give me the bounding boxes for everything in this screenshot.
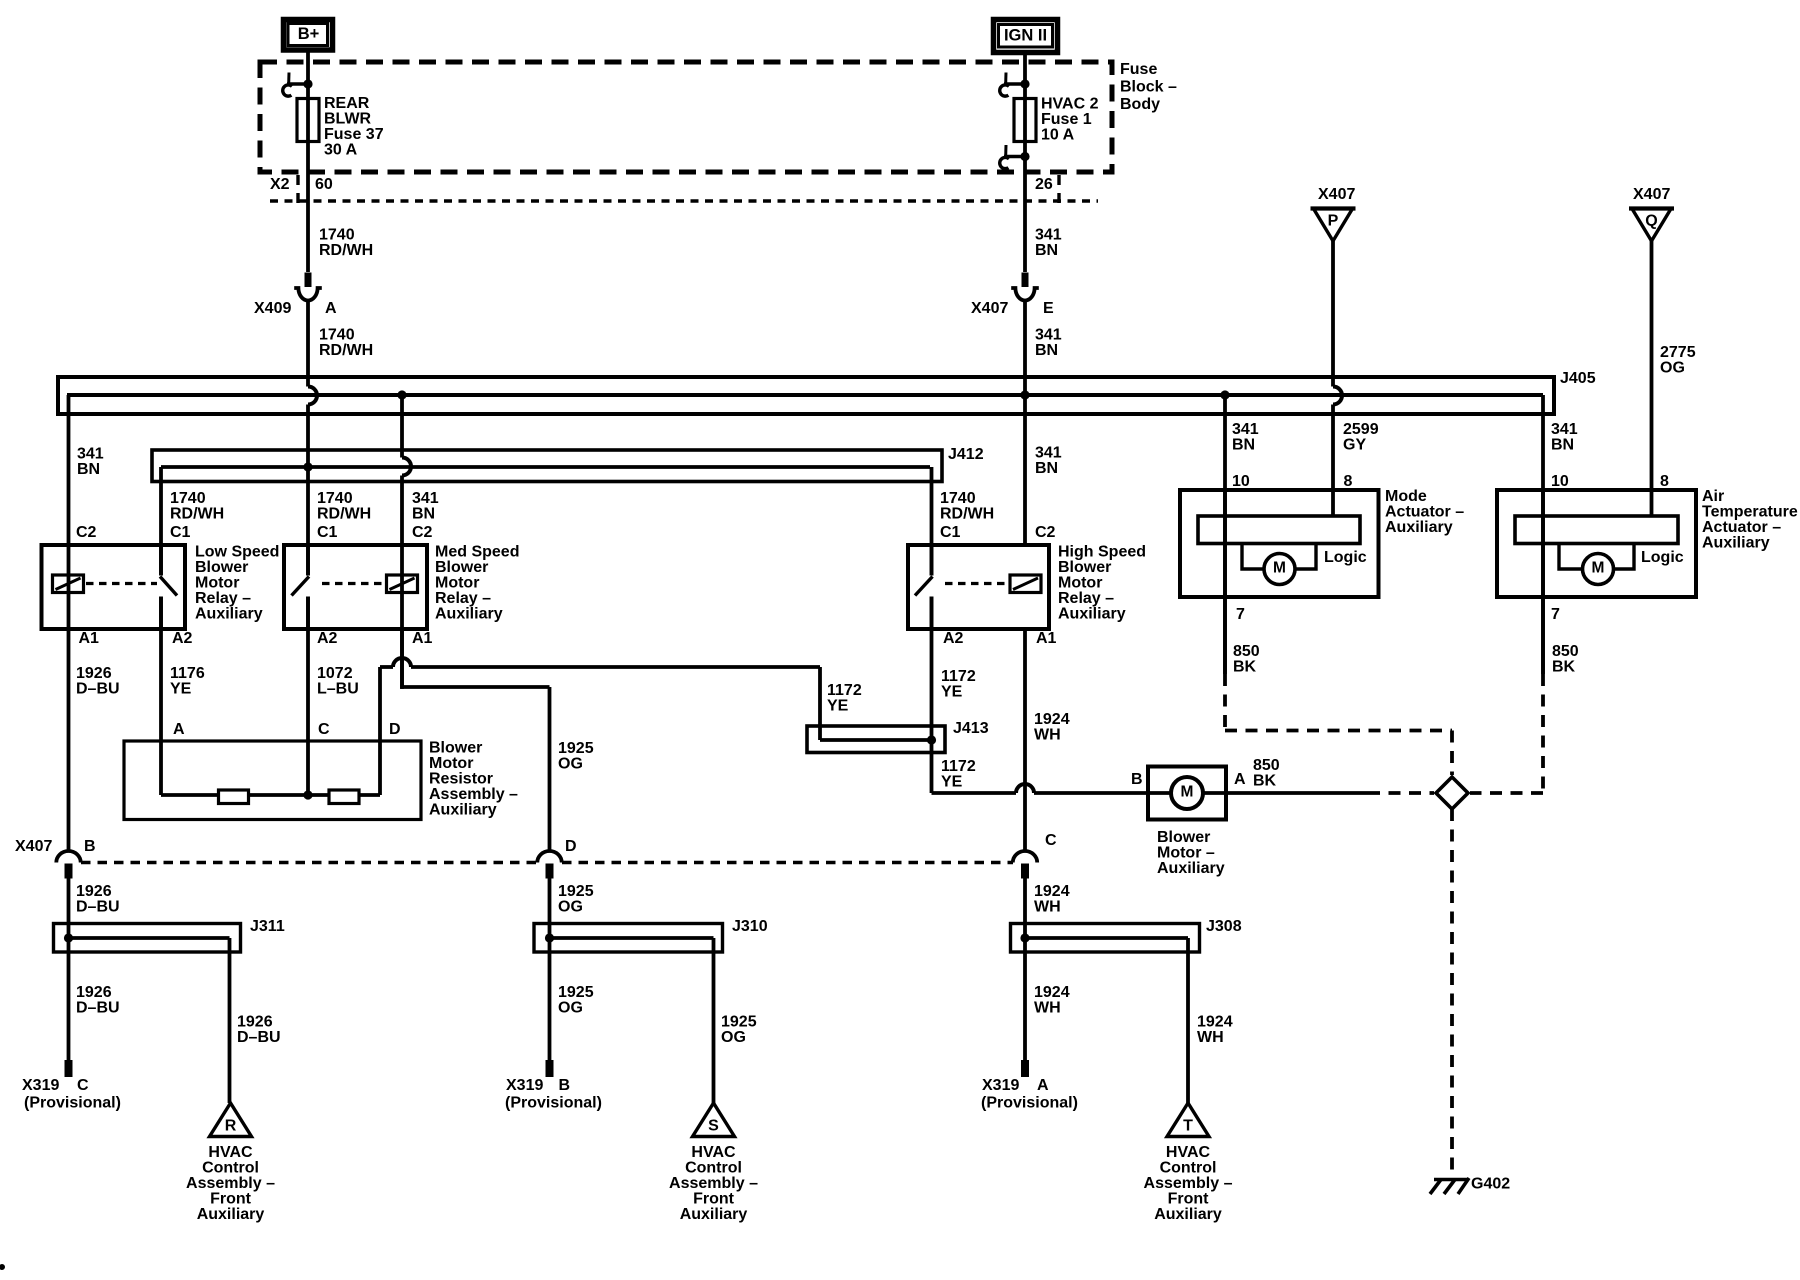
relay K2 Med Speed Blower Motor Relay - Auxiliary box [284, 545, 427, 629]
svg-text:341: 341 [1232, 421, 1259, 438]
svg-text:D–BU: D–BU [237, 1029, 281, 1046]
wire med relay A1 to 1925 OG drop [400, 629, 549, 852]
svg-text:Control: Control [1160, 1160, 1217, 1177]
svg-text:Control: Control [202, 1160, 259, 1177]
svg-text:D–BU: D–BU [76, 681, 120, 698]
splice bus J413 outline [807, 726, 945, 753]
svg-text:1072: 1072 [317, 665, 353, 682]
svg-text:X407: X407 [1633, 186, 1670, 203]
relay K1 coil-contact dashed link [86, 582, 157, 585]
svg-text:A: A [1234, 771, 1246, 788]
svg-text:1176: 1176 [170, 665, 205, 682]
svg-text:BN: BN [1035, 460, 1058, 477]
svg-text:High Speed: High Speed [1058, 544, 1146, 561]
label 341 BN C2 high relay [1035, 445, 1062, 542]
mode actuator motor link wires [1242, 544, 1316, 570]
label 1926 D-BU mid [76, 883, 120, 916]
splice bus J310 conductor [550, 936, 714, 940]
svg-text:X2: X2 [270, 176, 290, 193]
wire 1740 RD/WH J412 left end to low relay C1 [159, 467, 163, 576]
label Med Speed Blower Motor Relay - Auxiliary [435, 544, 519, 623]
terminal X319 pin C [65, 1060, 73, 1077]
svg-text:G402: G402 [1471, 1176, 1510, 1193]
svg-text:10 A: 10 A [1041, 127, 1075, 144]
label REAR BLWR Fuse 37 30 A [324, 95, 384, 159]
junction dot J311 [64, 933, 73, 942]
label X319 C (Provisional) [22, 1077, 121, 1112]
svg-text:C2: C2 [1035, 524, 1056, 541]
wire 2599 GY from X407-P to bus J405 [1331, 240, 1335, 387]
label A1 A2 low relay [79, 630, 193, 647]
svg-text:1926: 1926 [237, 1014, 273, 1031]
label 850 BK blower motor [1253, 757, 1280, 790]
label wire 341 BN left branch [77, 446, 104, 479]
junction dot J308 [1020, 933, 1029, 942]
svg-text:BN: BN [412, 506, 435, 523]
svg-text:X407: X407 [971, 300, 1008, 317]
wire 1172 YE resistor D up and across to J413 [380, 658, 820, 795]
splice bus J413 conductor [820, 738, 932, 742]
svg-text:RD/WH: RD/WH [319, 242, 373, 259]
svg-text:A1: A1 [1036, 630, 1057, 647]
svg-text:C1: C1 [170, 524, 191, 541]
svg-text:1925: 1925 [558, 984, 594, 1001]
svg-text:Relay –: Relay – [195, 590, 251, 607]
label X319 B (Provisional) [505, 1077, 602, 1112]
label wire 341 BN lower [1035, 327, 1062, 360]
svg-text:J308: J308 [1206, 918, 1242, 935]
relay K1 coil [53, 575, 84, 593]
in-line connector X407 pin C [1013, 851, 1037, 879]
label HVAC Control Assembly - Front Auxiliary (S) [669, 1144, 758, 1223]
label 1740 RD/WH C1 low relay [170, 490, 224, 541]
svg-text:10: 10 [1232, 473, 1250, 490]
wire 1924 WH X407-C to J308 and X319-A [1023, 878, 1027, 1060]
svg-text:C1: C1 [317, 524, 338, 541]
svg-text:OG: OG [558, 899, 583, 916]
svg-text:Block –: Block – [1120, 79, 1177, 96]
svg-text:Actuator –: Actuator – [1385, 504, 1464, 521]
svg-text:BN: BN [1035, 342, 1058, 359]
label wire 341 BN upper [1035, 227, 1062, 260]
svg-text:WH: WH [1034, 727, 1061, 744]
svg-text:YE: YE [941, 774, 963, 791]
svg-text:RD/WH: RD/WH [317, 506, 371, 523]
svg-text:1172: 1172 [941, 758, 976, 775]
jump hook 1740 RD/WH over J405 [308, 387, 317, 405]
label 1924 WH mid [1034, 883, 1070, 916]
svg-text:A2: A2 [317, 630, 338, 647]
label A2 A1 high relay [943, 630, 1057, 647]
resistor internal wire [161, 793, 380, 797]
svg-text:X319: X319 [982, 1077, 1019, 1094]
svg-text:Auxiliary: Auxiliary [1154, 1206, 1222, 1223]
svg-text:Logic: Logic [1641, 549, 1684, 566]
svg-text:A1: A1 [79, 630, 100, 647]
svg-text:X407: X407 [1318, 186, 1355, 203]
wire 341 BN from X407-E to bus J405 [1023, 301, 1027, 546]
wire 850 BK mode actuator dashed to diamond [1225, 674, 1452, 775]
svg-text:WH: WH [1034, 1000, 1061, 1017]
svg-text:Resistor: Resistor [429, 771, 493, 788]
svg-text:Temperature: Temperature [1702, 504, 1798, 521]
svg-text:A: A [173, 721, 185, 738]
svg-text:J311: J311 [250, 918, 285, 935]
svg-text:Fuse 1: Fuse 1 [1041, 111, 1092, 128]
svg-text:1926: 1926 [76, 984, 112, 1001]
svg-text:OG: OG [558, 1000, 583, 1017]
svg-text:Control: Control [685, 1160, 742, 1177]
splice bus J412 conductor [161, 465, 930, 469]
jump hook 2599 GY over J405 [1333, 387, 1342, 405]
svg-text:D: D [565, 838, 577, 855]
terminal X319 pin B [546, 1060, 554, 1077]
label 1172 YE above J413 [941, 668, 976, 701]
svg-text:Front: Front [210, 1191, 252, 1208]
blower motor internal wire [1148, 791, 1226, 795]
svg-text:341: 341 [77, 446, 104, 463]
svg-text:HVAC: HVAC [1166, 1144, 1211, 1161]
svg-text:341: 341 [1035, 445, 1062, 462]
svg-text:Auxiliary: Auxiliary [195, 606, 263, 623]
svg-text:Blower: Blower [435, 559, 488, 576]
label 1926 D-BU lower [76, 984, 120, 1017]
svg-text:L–BU: L–BU [317, 681, 359, 698]
resistor element R1 [219, 790, 249, 804]
svg-text:(Provisional): (Provisional) [505, 1095, 602, 1112]
label 2599 GY [1343, 421, 1379, 454]
wire 341 BN J405 to mode actuator pin 10 [1223, 395, 1227, 674]
svg-text:YE: YE [941, 684, 963, 701]
label 341 BN mode actuator feed [1232, 421, 1259, 454]
svg-text:C2: C2 [412, 524, 433, 541]
svg-text:7: 7 [1551, 606, 1560, 623]
label 850 BK mode actuator [1233, 643, 1260, 676]
splice bus J308 outline [1011, 924, 1200, 953]
svg-text:1740: 1740 [319, 327, 355, 344]
connector triangle R [210, 1103, 252, 1137]
svg-text:1925: 1925 [558, 740, 594, 757]
label 1740 RD/WH C1 high relay [940, 490, 994, 541]
svg-text:Motor –: Motor – [1157, 845, 1215, 862]
svg-text:Low Speed: Low Speed [195, 544, 279, 561]
svg-text:Front: Front [1168, 1191, 1210, 1208]
svg-text:RD/WH: RD/WH [170, 506, 224, 523]
in-line connector X407 pin B [56, 851, 80, 878]
wire 1924 WH high relay A1 to X407-C [1023, 629, 1027, 852]
wire B+ feed through fuse 37 (x=308) [306, 52, 310, 272]
svg-text:A: A [325, 300, 337, 317]
junction dot J413 [927, 735, 936, 744]
svg-text:Logic: Logic [1324, 549, 1367, 566]
svg-text:341: 341 [1035, 327, 1062, 344]
svg-text:WH: WH [1034, 899, 1061, 916]
fuse clip upper HVAC 2 fuse [1000, 73, 1030, 97]
label HVAC Control Assembly - Front Auxiliary (R) [186, 1144, 275, 1223]
svg-text:Auxiliary: Auxiliary [197, 1206, 265, 1223]
fuse clip upper REAR BLWR fuse [283, 73, 313, 97]
svg-text:341: 341 [412, 490, 439, 507]
svg-text:X407: X407 [15, 838, 52, 855]
svg-text:Motor: Motor [429, 755, 473, 772]
wire air temp actuator pin 10 through logic to pin 7 [1541, 490, 1545, 674]
wire 1072 L-BU med relay A2 to resistor C [306, 597, 310, 796]
label 1924 WH branch [1197, 1014, 1233, 1047]
svg-text:Blower: Blower [195, 559, 248, 576]
svg-text:T: T [1183, 1118, 1193, 1135]
svg-text:RD/WH: RD/WH [940, 506, 994, 523]
resistor pin labels A C D [173, 721, 401, 738]
connector triangle X407 P [1311, 209, 1356, 242]
junction dot J412 1740 RD/WH [303, 462, 312, 471]
fuse HVAC 2 Fuse 1 10 A [1014, 99, 1036, 142]
fuse block lower dashed boundary [270, 199, 1098, 202]
svg-text:1926: 1926 [76, 665, 112, 682]
svg-text:B: B [559, 1077, 571, 1094]
wire 1926 D-BU J311 branch to HVAC control R [228, 938, 232, 1103]
svg-text:HVAC: HVAC [208, 1144, 253, 1161]
wire mode actuator pin 10 through logic to pin 7 [1223, 490, 1227, 674]
wire 1926 D-BU X407-B to J311 and X319-C [67, 878, 71, 1060]
svg-text:J413: J413 [953, 720, 989, 737]
svg-text:Auxiliary: Auxiliary [429, 802, 497, 819]
splice bus J405 conductor [67, 393, 1543, 397]
power feed node B+ [284, 20, 333, 51]
connector X2 row labels [270, 176, 1053, 193]
fuse clip lower HVAC 2 fuse [1000, 145, 1030, 169]
svg-text:1925: 1925 [721, 1014, 757, 1031]
svg-text:IGN II: IGN II [1004, 27, 1047, 45]
label wire 2775 OG [1660, 344, 1696, 377]
svg-text:Auxiliary: Auxiliary [680, 1206, 748, 1223]
svg-text:C2: C2 [76, 524, 97, 541]
label Low Speed Blower Motor Relay - Auxiliary [195, 544, 279, 623]
svg-text:Assembly –: Assembly – [429, 786, 518, 803]
blower motor resistor assembly box [124, 741, 421, 820]
label 850 BK air temp actuator [1552, 643, 1579, 676]
svg-text:(Provisional): (Provisional) [981, 1095, 1078, 1112]
relay K1 Low Speed Blower Motor Relay - Auxiliary box [42, 545, 186, 629]
label HVAC 2 Fuse 1 10 A [1041, 96, 1099, 144]
junction dot resistor C tap [303, 790, 312, 799]
splice bus J412 outline [152, 450, 942, 482]
svg-text:8: 8 [1660, 473, 1669, 490]
blower motor M symbol [1171, 777, 1203, 809]
junction dot J405 to med relay C2 [397, 390, 406, 399]
svg-text:REAR: REAR [324, 95, 370, 112]
label wire 1740 RD/WH upper [319, 227, 373, 260]
svg-text:2599: 2599 [1343, 421, 1379, 438]
relay K3 High Speed Blower Motor Relay - Auxiliary box [908, 545, 1049, 629]
svg-text:Fuse 37: Fuse 37 [324, 126, 384, 143]
wire IGN II feed through HVAC 2 fuse (x=1025) [1023, 52, 1027, 272]
junction dot J310 [545, 933, 554, 942]
svg-text:Fuse: Fuse [1120, 61, 1157, 78]
svg-text:1740: 1740 [170, 490, 206, 507]
junction dot J405 to mode actuator [1220, 390, 1229, 399]
svg-text:341: 341 [1035, 227, 1062, 244]
svg-text:Auxiliary: Auxiliary [1385, 519, 1453, 536]
wire 341 BN J405 left end down to low relay C2 [67, 395, 71, 852]
svg-text:YE: YE [827, 698, 849, 715]
svg-text:RD/WH: RD/WH [319, 342, 373, 359]
in-line connector X407 pin D [537, 851, 561, 879]
svg-text:D–BU: D–BU [76, 1000, 120, 1017]
wire 850 BK dashed to splice diamond [1368, 791, 1434, 795]
relay K2 coil [387, 575, 418, 593]
label 1925 OG at drop [558, 740, 594, 773]
wire 2599 GY below J405 to mode actuator pin 8 [1331, 405, 1335, 517]
svg-text:7: 7 [1236, 606, 1245, 623]
label 1924 WH lower [1034, 984, 1070, 1017]
svg-text:1924: 1924 [1197, 1014, 1233, 1031]
label 1072 L-BU [317, 665, 359, 698]
connector triangle X407 Q [1629, 209, 1674, 242]
label Blower Motor - Auxiliary [1157, 829, 1225, 877]
wire 1925 OG X407-D to J310 and X319-B [548, 878, 552, 1060]
svg-text:850: 850 [1552, 643, 1579, 660]
splice bus J311 outline [54, 924, 241, 953]
svg-text:Body: Body [1120, 96, 1160, 113]
svg-text:1924: 1924 [1034, 984, 1070, 1001]
svg-text:Motor: Motor [195, 575, 239, 592]
svg-text:Front: Front [693, 1191, 735, 1208]
svg-text:OG: OG [1660, 360, 1685, 377]
wire 850 BK blower motor A solid segment [1226, 791, 1368, 795]
svg-text:A1: A1 [412, 630, 433, 647]
svg-text:1172: 1172 [941, 668, 976, 685]
stray mark bottom left [0, 1264, 5, 1270]
svg-text:R: R [225, 1118, 237, 1135]
svg-text:Blower: Blower [429, 740, 482, 757]
wire 1172 YE to blower motor B [932, 784, 1149, 793]
svg-text:M: M [1592, 559, 1605, 576]
relay K2 contact blade [292, 545, 310, 629]
svg-text:BN: BN [77, 461, 100, 478]
splice bus J311 conductor [69, 936, 230, 940]
svg-text:S: S [708, 1118, 719, 1135]
svg-text:1925: 1925 [558, 883, 594, 900]
svg-text:1740: 1740 [940, 490, 976, 507]
label 1925 OG lower [558, 984, 594, 1017]
svg-text:BN: BN [1551, 437, 1574, 454]
svg-text:A2: A2 [172, 630, 193, 647]
svg-text:Relay –: Relay – [435, 590, 491, 607]
label Air Temperature Actuator - Auxiliary [1702, 488, 1798, 552]
label 341 BN C2 med relay [412, 490, 439, 541]
relay K3 coil [1010, 575, 1041, 593]
svg-text:BK: BK [1552, 659, 1576, 676]
svg-text:341: 341 [1551, 421, 1578, 438]
svg-text:Motor: Motor [435, 575, 479, 592]
svg-text:1740: 1740 [319, 227, 355, 244]
svg-text:X319: X319 [506, 1077, 543, 1094]
splice bus J308 conductor [1025, 936, 1188, 940]
svg-text:B: B [84, 838, 96, 855]
connector X2 tick right [1057, 175, 1060, 206]
air temp actuator motor link wires [1559, 544, 1634, 570]
label 1172 YE near J413 left [827, 682, 862, 715]
svg-text:Assembly –: Assembly – [1144, 1175, 1233, 1192]
wire 850 BK dashed down to G402 [1450, 809, 1454, 1178]
label A2 A1 med relay [317, 630, 433, 647]
svg-text:B+: B+ [298, 25, 320, 43]
resistor element R2 [329, 790, 359, 804]
wire 850 BK air temp actuator dashed to diamond [1470, 674, 1543, 793]
air temp actuator motor M [1583, 554, 1614, 585]
label Fuse Block - Body [1120, 61, 1177, 113]
connector triangle T [1167, 1103, 1209, 1137]
svg-text:HVAC: HVAC [691, 1144, 736, 1161]
connector X2 tick left [296, 175, 299, 206]
splice diamond 850 BK [1436, 777, 1468, 809]
svg-text:C1: C1 [940, 524, 961, 541]
wire 1740 RD/WH J412 right end to high relay C1 [930, 467, 934, 576]
svg-text:M: M [1273, 559, 1286, 576]
label 341 BN air temp actuator feed [1551, 421, 1578, 454]
svg-text:J310: J310 [732, 918, 768, 935]
jump hook 341 BN over J412 [402, 458, 411, 476]
relay K3 contact blade [915, 545, 933, 629]
mode actuator logic bar [1198, 516, 1360, 544]
svg-text:Auxiliary: Auxiliary [1702, 535, 1770, 552]
svg-text:Assembly –: Assembly – [669, 1175, 758, 1192]
svg-text:Blower: Blower [1058, 559, 1111, 576]
air temperature actuator - auxiliary box [1497, 490, 1696, 597]
svg-text:J405: J405 [1560, 370, 1596, 387]
label 1925 OG branch [721, 1014, 757, 1047]
label X319 A (Provisional) [981, 1077, 1078, 1112]
svg-text:C: C [318, 721, 330, 738]
svg-text:GY: GY [1343, 437, 1366, 454]
splice bus J405 outline [58, 377, 1554, 414]
label 1740 RD/WH C1 med relay [317, 490, 371, 541]
svg-text:D–BU: D–BU [76, 899, 120, 916]
svg-text:Actuator –: Actuator – [1702, 519, 1781, 536]
svg-text:Q: Q [1645, 213, 1657, 230]
label Mode Actuator - Auxiliary [1385, 488, 1464, 536]
svg-text:OG: OG [558, 756, 583, 773]
wire 1740 RD/WH from J405 hook down to J412 [306, 405, 310, 576]
wire 1924 WH J308 branch to HVAC control T [1186, 938, 1190, 1103]
svg-text:J412: J412 [948, 446, 984, 463]
svg-text:M: M [1181, 783, 1194, 800]
svg-text:850: 850 [1233, 643, 1260, 660]
label 1926 D-BU branch [237, 1014, 281, 1047]
svg-text:BN: BN [1232, 437, 1255, 454]
ground G402 symbol [1430, 1178, 1469, 1194]
svg-text:Mode: Mode [1385, 488, 1427, 505]
svg-text:30 A: 30 A [324, 142, 358, 159]
svg-text:Auxiliary: Auxiliary [435, 606, 503, 623]
svg-text:C: C [77, 1077, 89, 1094]
connector X407 dashed harness line [81, 861, 1013, 864]
wire 1740 RD/WH from X409-A to bus J405 [306, 301, 310, 387]
wire 1172 YE high relay A2 through J413 [930, 597, 934, 794]
svg-text:D: D [389, 721, 401, 738]
label wire 1740 RD/WH lower [319, 327, 373, 360]
svg-text:X319: X319 [22, 1077, 59, 1094]
svg-text:YE: YE [170, 681, 192, 698]
svg-text:10: 10 [1551, 473, 1569, 490]
relay K2 coil-contact dashed link [322, 582, 385, 585]
svg-text:1924: 1924 [1034, 711, 1070, 728]
svg-text:Blower: Blower [1157, 829, 1210, 846]
svg-text:Relay –: Relay – [1058, 590, 1114, 607]
svg-text:(Provisional): (Provisional) [24, 1095, 121, 1112]
svg-text:850: 850 [1253, 757, 1280, 774]
in-line connector X407 pin E [1011, 273, 1039, 301]
